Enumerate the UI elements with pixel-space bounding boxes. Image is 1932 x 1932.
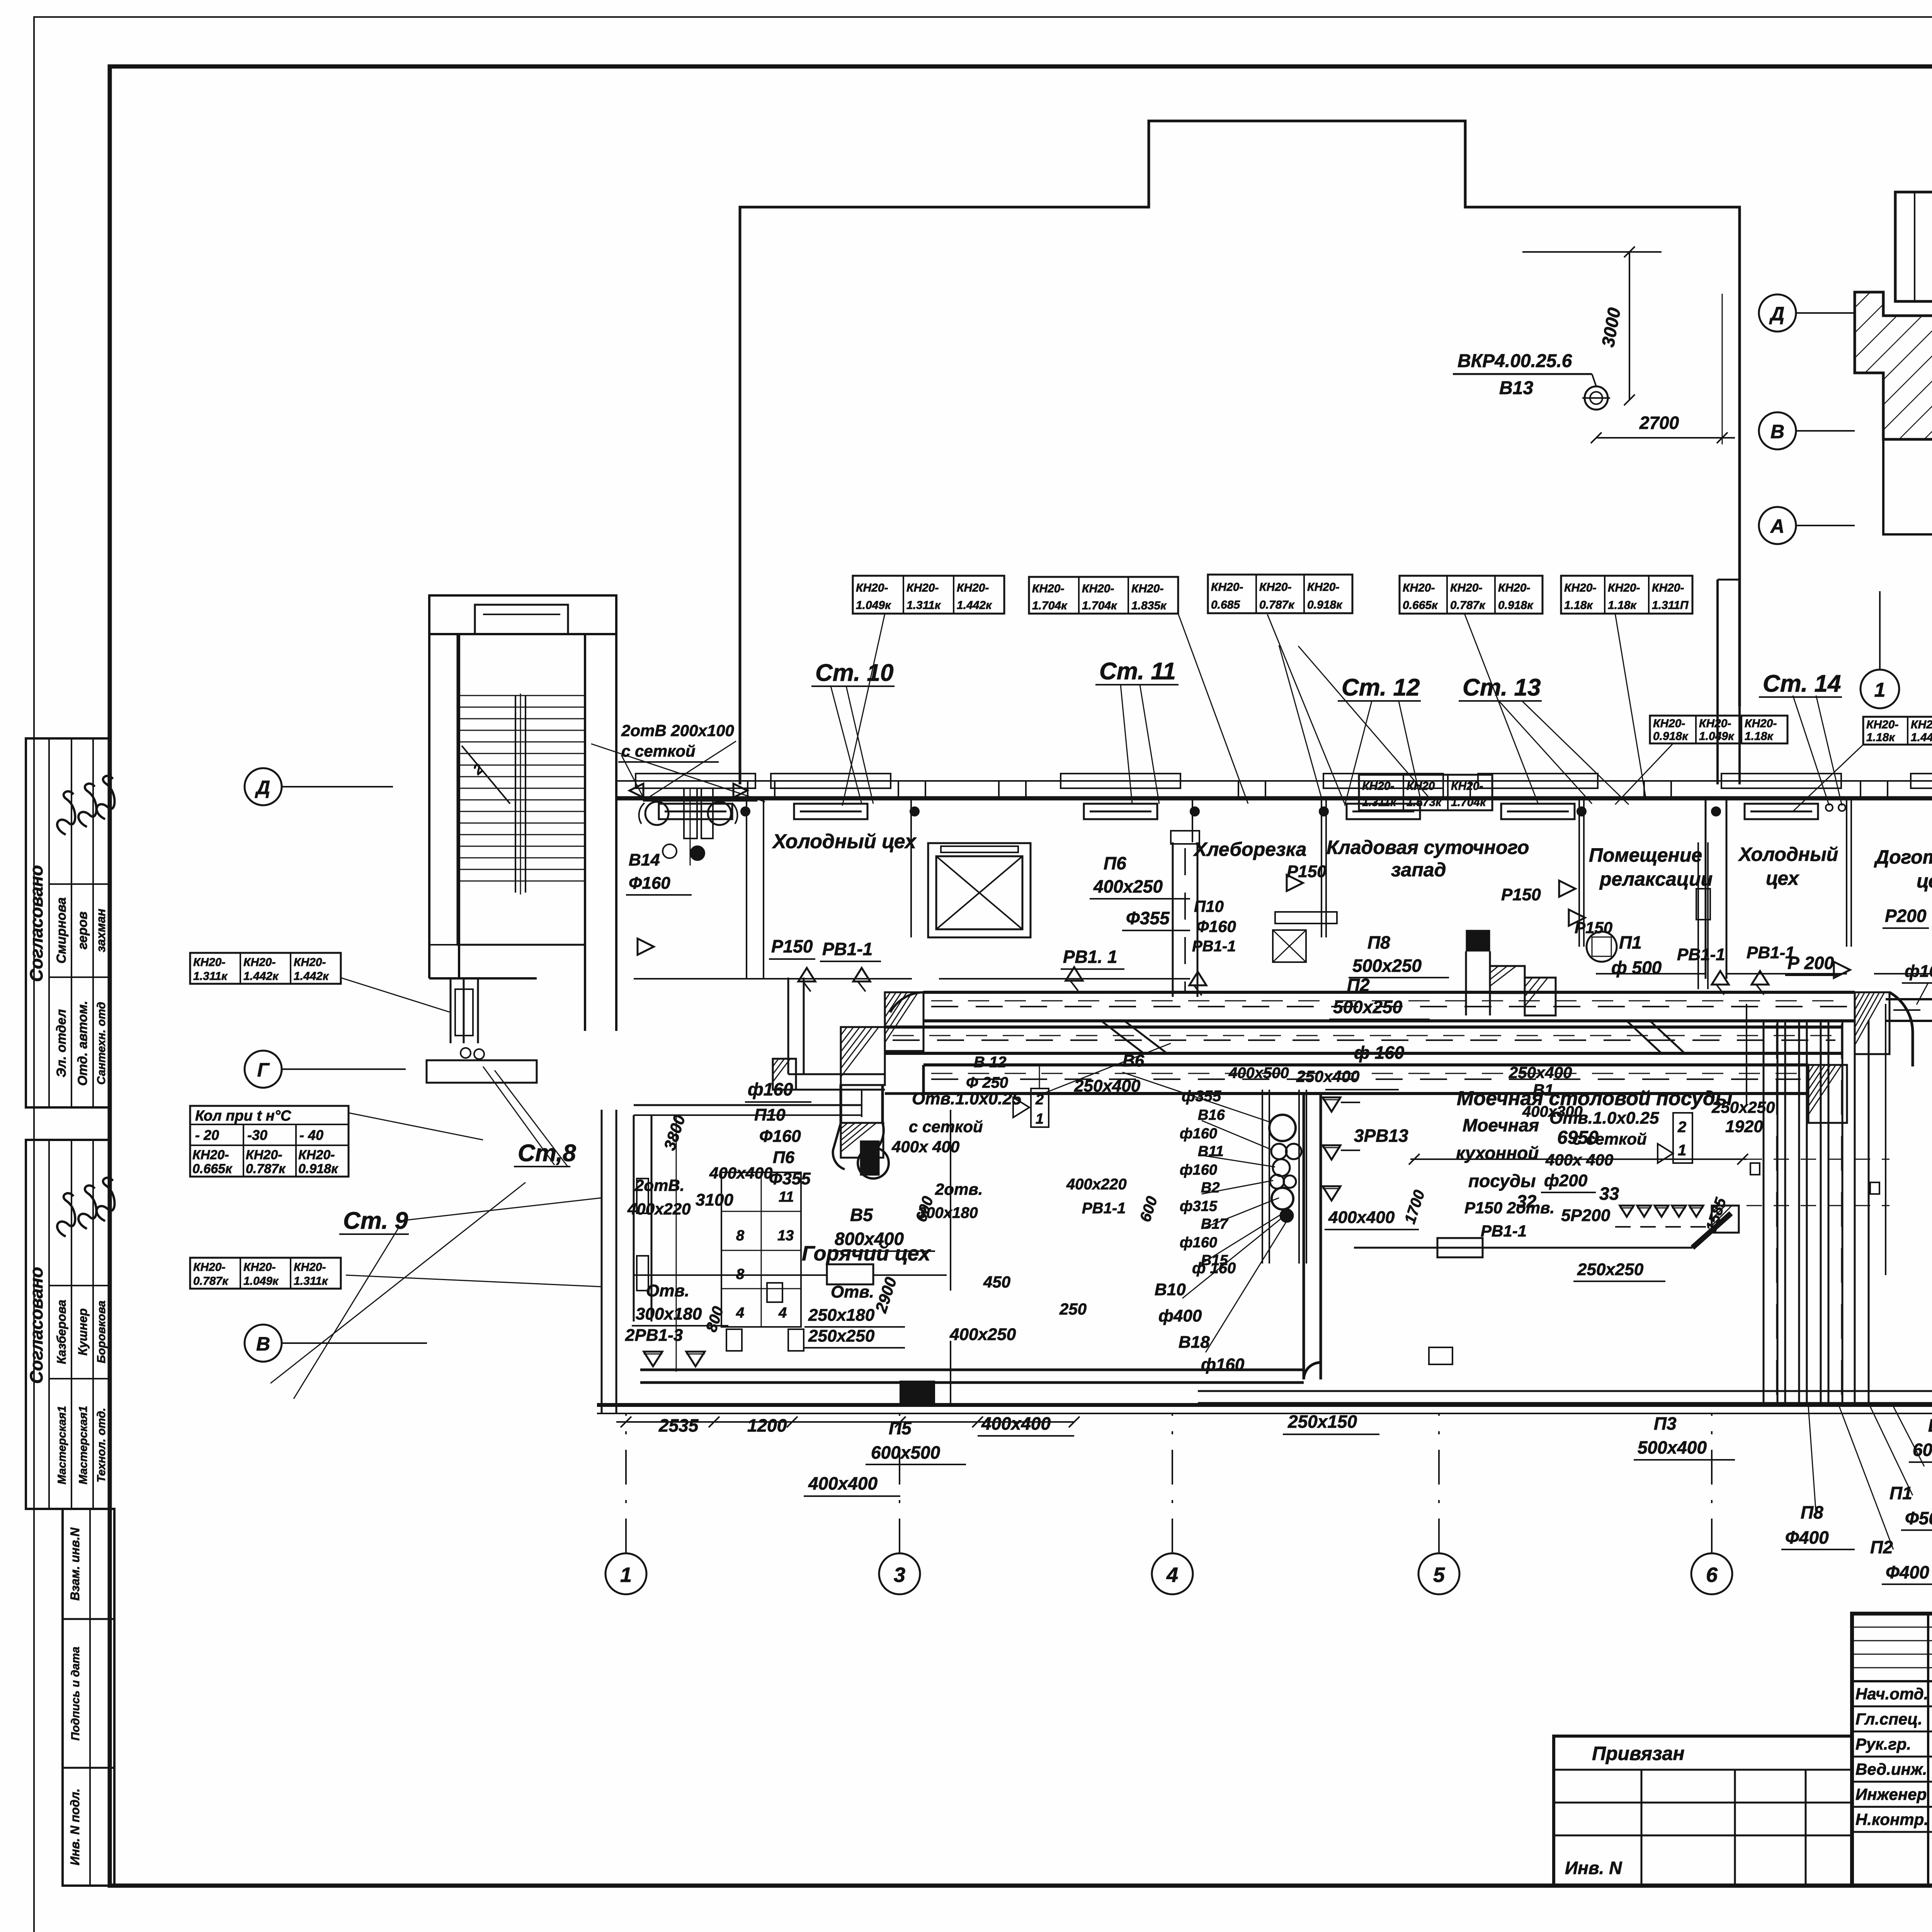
- lower band outer walls: [601, 1110, 603, 1413]
- svg-text:Согласовано: Согласовано: [26, 1267, 46, 1384]
- bundle left end fan cap: [863, 1123, 884, 1165]
- svg-text:КН20-: КН20-: [1498, 582, 1530, 594]
- svg-text:11: 11: [779, 1189, 794, 1205]
- svg-text:РВ1-1: РВ1-1: [1192, 938, 1236, 955]
- svg-text:2700: 2700: [1639, 413, 1679, 433]
- svg-text:КН20-: КН20-: [906, 582, 939, 594]
- P1 F500 circle: [1587, 932, 1617, 962]
- svg-text:П8: П8: [1367, 932, 1390, 952]
- svg-text:РВ1-1: РВ1-1: [1677, 945, 1725, 964]
- svg-text:3: 3: [894, 1563, 905, 1587]
- dim chain bottom-left: [616, 1421, 1074, 1423]
- svg-text:В3: В3: [1928, 1415, 1932, 1435]
- svg-text:1.835к: 1.835к: [1131, 599, 1167, 612]
- svg-text:Ф500: Ф500: [1905, 1508, 1932, 1528]
- svg-text:0.787к: 0.787к: [246, 1162, 286, 1176]
- sidebar inv block: [63, 1509, 114, 1886]
- svg-text:цех: цех: [1917, 870, 1932, 892]
- svg-text:В13: В13: [1499, 378, 1533, 398]
- svg-text:КН20-: КН20-: [1362, 780, 1394, 793]
- svg-text:П3: П3: [1654, 1413, 1677, 1434]
- svg-text:Кушнер: Кушнер: [76, 1308, 90, 1355]
- svg-text:с сеткой: с сеткой: [621, 742, 696, 760]
- svg-text:1.18к: 1.18к: [1608, 599, 1637, 612]
- svg-text:250х150: 250х150: [1287, 1412, 1357, 1432]
- svg-text:Ст,8: Ст,8: [518, 1140, 576, 1167]
- misc leaders lower left: [1122, 1072, 1271, 1122]
- svg-text:Р200: Р200: [1885, 906, 1927, 926]
- svg-text:КН20-: КН20-: [1652, 582, 1684, 594]
- svg-text:КН20-: КН20-: [1032, 582, 1064, 595]
- svg-text:КН20-: КН20-: [294, 1261, 326, 1274]
- svg-text:кухонной: кухонной: [1456, 1143, 1539, 1163]
- dim 2700: [1596, 437, 1735, 439]
- svg-text:КН20-: КН20-: [193, 1261, 225, 1274]
- R200 flags: [1834, 962, 1850, 978]
- svg-text:1.704к: 1.704к: [1032, 599, 1068, 612]
- svg-text:Г: Г: [257, 1059, 270, 1081]
- svg-text:ВКР4.00.25.6: ВКР4.00.25.6: [1458, 351, 1572, 371]
- svg-text:Технол. отд.: Технол. отд.: [95, 1408, 108, 1482]
- svg-text:1.18к: 1.18к: [1564, 599, 1593, 612]
- svg-text:Боровкова: Боровкова: [95, 1301, 108, 1363]
- svg-text:П6: П6: [1104, 853, 1126, 873]
- svg-text:Р150: Р150: [1501, 885, 1541, 904]
- svg-text:посуды: посуды: [1468, 1171, 1536, 1191]
- privyazan table: [1554, 1736, 1852, 1886]
- dim 3000: [1522, 251, 1662, 253]
- svg-text:В14: В14: [629, 850, 660, 869]
- svg-text:ф 160: ф 160: [1354, 1043, 1405, 1063]
- svg-text:КН20-: КН20-: [243, 1261, 276, 1274]
- svg-text:Ф400: Ф400: [1886, 1562, 1929, 1582]
- svg-text:В: В: [256, 1333, 270, 1355]
- svg-text:Ф355: Ф355: [1126, 908, 1170, 928]
- svg-text:Привязан: Привязан: [1592, 1743, 1685, 1764]
- svg-text:Отв.: Отв.: [646, 1281, 689, 1300]
- svg-text:Р150: Р150: [771, 936, 813, 956]
- axis circle G left: [245, 1051, 282, 1088]
- svg-text:32: 32: [1517, 1191, 1537, 1211]
- svg-text:600х500: 600х500: [871, 1442, 940, 1463]
- svg-text:В18: В18: [1179, 1333, 1210, 1352]
- svg-text:КН20-: КН20-: [1450, 582, 1482, 594]
- svg-text:0.665к: 0.665к: [1403, 599, 1438, 612]
- svg-text:В: В: [1770, 421, 1784, 442]
- svg-text:1: 1: [620, 1563, 632, 1587]
- elevator shaft 1: [928, 843, 1031, 937]
- svg-text:450: 450: [983, 1273, 1010, 1291]
- axis circle V right: [1759, 412, 1796, 449]
- sidebar approval block 1: [26, 738, 110, 1107]
- svg-text:П1: П1: [1619, 932, 1642, 952]
- svg-text:КН20-: КН20-: [1564, 582, 1596, 594]
- svg-text:Ст. 14: Ст. 14: [1763, 670, 1841, 697]
- svg-text:В5: В5: [850, 1205, 873, 1225]
- svg-text:Гл.спец.: Гл.спец.: [1855, 1710, 1922, 1728]
- svg-text:1.442к: 1.442к: [957, 599, 992, 612]
- svg-text:- 20: - 20: [195, 1127, 219, 1143]
- svg-text:1920: 1920: [1725, 1117, 1763, 1136]
- svg-text:1.442к: 1.442к: [294, 970, 329, 983]
- svg-text:400х400: 400х400: [981, 1413, 1051, 1434]
- svg-text:Подпись и дата: Подпись и дата: [69, 1646, 82, 1740]
- junction dots on band: [741, 807, 750, 816]
- svg-text:4: 4: [778, 1305, 787, 1321]
- axis circle A right: [1759, 507, 1796, 544]
- svg-text:2: 2: [1677, 1119, 1686, 1136]
- svg-text:- 40: - 40: [299, 1127, 323, 1143]
- svg-text:КН20-: КН20-: [193, 956, 225, 969]
- strip top wall with windows: [616, 780, 1932, 782]
- svg-text:1.311к: 1.311к: [193, 970, 228, 983]
- svg-text:В1: В1: [1533, 1081, 1554, 1099]
- svg-text:Д: Д: [1769, 303, 1784, 325]
- svg-text:КН20-: КН20-: [298, 1148, 335, 1162]
- svg-text:ф 500: ф 500: [1611, 957, 1662, 978]
- lower-left main duct 400x400: [640, 1369, 1304, 1371]
- svg-text:0.787к: 0.787к: [193, 1275, 229, 1287]
- svg-text:Взам. инв.N: Взам. инв.N: [68, 1527, 82, 1601]
- svg-text:500х250: 500х250: [1333, 997, 1402, 1017]
- svg-text:КН20-: КН20-: [1911, 718, 1932, 731]
- axis circle V left: [245, 1325, 282, 1362]
- top axis circles: [1861, 670, 1899, 708]
- svg-text:400х220: 400х220: [627, 1200, 691, 1218]
- leader lines: [340, 978, 451, 1012]
- svg-text:ф355: ф355: [1182, 1088, 1221, 1105]
- svg-text:400х250: 400х250: [949, 1325, 1016, 1344]
- svg-text:400х400: 400х400: [709, 1164, 773, 1182]
- svg-text:РВ1-1: РВ1-1: [1481, 1222, 1527, 1240]
- svg-text:Ф160: Ф160: [1196, 917, 1236, 935]
- svg-text:КН20-: КН20-: [246, 1148, 282, 1162]
- svg-text:1: 1: [1036, 1111, 1044, 1127]
- svg-text:Инженер: Инженер: [1855, 1785, 1927, 1803]
- vestibule fans top-left: [645, 802, 668, 825]
- svg-text:400х250: 400х250: [1093, 876, 1163, 896]
- svg-text:цех: цех: [1766, 867, 1800, 889]
- svg-text:КН20-: КН20-: [1082, 582, 1114, 595]
- svg-text:Кол при t н°С: Кол при t н°С: [195, 1108, 291, 1124]
- svg-text:1.049к: 1.049к: [1699, 730, 1735, 743]
- svg-text:300х180: 300х180: [918, 1204, 978, 1221]
- svg-text:ф160: ф160: [1180, 1162, 1217, 1178]
- svg-text:РВ1-1: РВ1-1: [1082, 1200, 1126, 1217]
- vertical riser ducts cluster: [1763, 1020, 1765, 1405]
- svg-text:4: 4: [736, 1305, 744, 1321]
- st. labels: [811, 660, 895, 686]
- svg-text:8: 8: [736, 1266, 745, 1282]
- upper rooms bottom wall: [634, 978, 912, 980]
- svg-text:КН20-: КН20-: [1259, 581, 1291, 594]
- svg-text:3РВ13: 3РВ13: [1354, 1126, 1408, 1146]
- svg-text:РВ1-1: РВ1-1: [822, 939, 872, 959]
- svg-text:с сеткой: с сеткой: [1573, 1130, 1647, 1148]
- svg-text:П2: П2: [1347, 975, 1370, 995]
- svg-text:1.049к: 1.049к: [243, 1275, 279, 1287]
- RV triangles upper band: [798, 968, 815, 981]
- svg-text:400х500: 400х500: [1228, 1065, 1289, 1082]
- svg-text:0.685: 0.685: [1211, 599, 1240, 611]
- svg-text:33: 33: [1599, 1184, 1619, 1204]
- svg-text:КН20-: КН20-: [1403, 582, 1435, 594]
- svg-text:ф160: ф160: [1180, 1235, 1217, 1251]
- svg-text:ф315: ф315: [1180, 1198, 1218, 1214]
- svg-text:5: 5: [1433, 1563, 1445, 1587]
- svg-text:В10: В10: [1155, 1280, 1186, 1299]
- svg-text:Ст. 13: Ст. 13: [1463, 674, 1541, 701]
- svg-text:250х250: 250х250: [1711, 1098, 1775, 1116]
- svg-text:КН20-: КН20-: [1745, 717, 1777, 730]
- svg-text:250х400: 250х400: [1074, 1077, 1141, 1095]
- sidebar approval block 2: [26, 1140, 110, 1509]
- kol pri table: [190, 1106, 349, 1177]
- svg-text:Р 200: Р 200: [1787, 953, 1834, 973]
- svg-text:8: 8: [736, 1228, 745, 1244]
- svg-text:КН20-: КН20-: [1211, 581, 1243, 594]
- svg-text:Р150: Р150: [1287, 862, 1327, 881]
- svg-text:0.918к: 0.918к: [1307, 599, 1343, 611]
- svg-text:Моечная столовой посуды: Моечная столовой посуды: [1457, 1087, 1732, 1110]
- svg-text:6: 6: [1706, 1563, 1718, 1587]
- KN tables top: [853, 576, 1004, 614]
- svg-text:250х180: 250х180: [808, 1306, 875, 1325]
- svg-text:Ф355: Ф355: [769, 1169, 811, 1188]
- svg-text:КН20-: КН20-: [1653, 717, 1685, 730]
- svg-text:250х250: 250х250: [808, 1327, 875, 1345]
- svg-text:2отВ 200х100: 2отВ 200х100: [621, 721, 734, 740]
- svg-text:ф160: ф160: [1201, 1355, 1245, 1374]
- svg-text:Доготовочный: Доготовочный: [1874, 846, 1932, 868]
- left staircase: [429, 595, 616, 634]
- svg-text:КН20-: КН20-: [957, 582, 989, 594]
- svg-text:геров: геров: [75, 912, 90, 949]
- radiator duct f200 moechnaya: [1354, 1247, 1506, 1249]
- svg-text:Мастерская1: Мастерская1: [77, 1406, 90, 1484]
- svg-text:400х400: 400х400: [808, 1473, 878, 1493]
- st8/st9 long leaders: [270, 1182, 526, 1383]
- svg-text:КН20-: КН20-: [1451, 780, 1483, 793]
- svg-text:Мастерская1: Мастерская1: [56, 1406, 68, 1484]
- svg-text:Ст. 11: Ст. 11: [1099, 658, 1176, 685]
- svg-text:Вед.инж.: Вед.инж.: [1855, 1760, 1927, 1778]
- svg-text:А: А: [1770, 515, 1784, 537]
- svg-text:1.704к: 1.704к: [1451, 796, 1486, 809]
- svg-text:1.049к: 1.049к: [856, 599, 891, 612]
- svg-text:Хлеборезка: Хлеборезка: [1193, 838, 1306, 860]
- svg-text:П8: П8: [1801, 1502, 1823, 1522]
- svg-text:Инв. N: Инв. N: [1565, 1858, 1622, 1878]
- svg-text:ф160: ф160: [748, 1079, 793, 1099]
- svg-text:Нач.отд.: Нач.отд.: [1855, 1685, 1928, 1703]
- svg-text:ф200: ф200: [1544, 1171, 1588, 1190]
- svg-text:1: 1: [1678, 1142, 1686, 1159]
- svg-text:1.311П: 1.311П: [1652, 599, 1689, 612]
- svg-text:Инв. N подл.: Инв. N подл.: [68, 1788, 82, 1865]
- svg-text:Согласовано: Согласовано: [26, 865, 46, 982]
- svg-text:КН20-: КН20-: [1699, 717, 1731, 730]
- svg-text:1.442к: 1.442к: [243, 970, 279, 983]
- svg-text:500х250: 500х250: [1352, 956, 1422, 976]
- left room radiator line: [634, 1274, 827, 1276]
- svg-text:400х300: 400х300: [1522, 1103, 1583, 1120]
- svg-text:П10: П10: [754, 1105, 786, 1124]
- title block main stamp: [1852, 1614, 1932, 1886]
- svg-text:0.787к: 0.787к: [1450, 599, 1486, 612]
- svg-text:300х180: 300х180: [636, 1304, 702, 1323]
- svg-text:КН20-: КН20-: [1866, 718, 1898, 731]
- svg-text:Ст. 12: Ст. 12: [1342, 674, 1420, 701]
- fan stack (moechnaya): [1262, 1090, 1263, 1264]
- lower-left grid table: [721, 1172, 801, 1327]
- svg-text:400х 400: 400х 400: [1545, 1151, 1613, 1169]
- svg-text:ф400: ф400: [1158, 1306, 1202, 1325]
- svg-text:КН20-: КН20-: [1608, 582, 1640, 594]
- small shaft kladovaya: [1273, 930, 1306, 962]
- svg-text:250: 250: [1059, 1300, 1087, 1318]
- upper building outline: [740, 121, 1740, 784]
- svg-text:В 12: В 12: [974, 1054, 1007, 1071]
- svg-text:1.311к: 1.311к: [294, 1275, 328, 1287]
- svg-text:Н.контр.: Н.контр.: [1855, 1810, 1929, 1828]
- svg-text:ф160: ф160: [1905, 962, 1932, 981]
- svg-text:Помещение: Помещение: [1589, 844, 1702, 866]
- P10 duct (khleborezka): [1172, 842, 1174, 997]
- svg-text:400х400: 400х400: [1328, 1208, 1395, 1227]
- svg-text:1.18к: 1.18к: [1745, 730, 1774, 743]
- svg-text:Смирнова: Смирнова: [54, 897, 69, 964]
- svg-text:ф 160: ф 160: [1192, 1260, 1236, 1277]
- svg-text:4: 4: [1166, 1563, 1178, 1587]
- rv triangles moechnaya: [1323, 1097, 1340, 1112]
- svg-text:0.665к: 0.665к: [192, 1162, 233, 1176]
- svg-text:Ф400: Ф400: [1785, 1527, 1829, 1548]
- svg-text:ф160: ф160: [1180, 1126, 1217, 1142]
- svg-text:3100: 3100: [696, 1190, 733, 1209]
- svg-text:400х220: 400х220: [1066, 1176, 1127, 1193]
- svg-text:КН20-: КН20-: [1307, 581, 1339, 594]
- svg-text:релаксации: релаксации: [1599, 868, 1713, 890]
- svg-text:Сантехн. отд: Сантехн. отд: [95, 1002, 108, 1085]
- bottom axis circles: [605, 1553, 646, 1594]
- svg-text:Ф160: Ф160: [759, 1127, 801, 1146]
- svg-text:250х400: 250х400: [1509, 1063, 1572, 1082]
- svg-text:Р150 2отв.: Р150 2отв.: [1464, 1199, 1554, 1217]
- svg-text:0.918к: 0.918к: [1653, 730, 1689, 743]
- svg-text:0.918к: 0.918к: [298, 1162, 338, 1176]
- svg-text:КН20-: КН20-: [243, 956, 276, 969]
- svg-text:250х400: 250х400: [1296, 1067, 1360, 1085]
- svg-text:1.18к: 1.18к: [1866, 731, 1895, 744]
- svg-text:0.787к: 0.787к: [1259, 599, 1295, 611]
- svg-text:КН20-: КН20-: [1131, 582, 1163, 595]
- 5R200 triangles: [1620, 1206, 1634, 1217]
- svg-text:Холодный цех: Холодный цех: [772, 830, 917, 853]
- svg-text:1.311к: 1.311к: [906, 599, 941, 612]
- right corridor duct 500x250: [1886, 998, 1932, 1000]
- axis circle D right: [1759, 294, 1796, 332]
- svg-text:Р150: Р150: [1575, 918, 1612, 937]
- svg-text:250х250: 250х250: [1577, 1260, 1644, 1279]
- P150 flags: [1287, 875, 1303, 891]
- upper kn leaders: [1279, 645, 1321, 798]
- svg-text:1.311к: 1.311к: [1362, 796, 1397, 809]
- duct f160 left: [788, 1073, 885, 1075]
- svg-text:Казберова: Казберова: [54, 1300, 68, 1364]
- svg-text:Кладовая суточного: Кладовая суточного: [1327, 837, 1529, 858]
- svg-text:В6: В6: [1122, 1051, 1145, 1070]
- svg-text:Отд. автом.: Отд. автом.: [75, 1001, 90, 1086]
- svg-text:800х400: 800х400: [835, 1229, 904, 1249]
- upper band partitions: [746, 798, 747, 979]
- svg-text:2отВ.: 2отВ.: [634, 1176, 684, 1194]
- svg-text:Ф 250: Ф 250: [966, 1074, 1008, 1091]
- svg-text:Отв.: Отв.: [831, 1282, 874, 1301]
- svg-text:Отв.1.0х0.25: Отв.1.0х0.25: [912, 1089, 1022, 1108]
- svg-text:Холодный: Холодный: [1738, 844, 1838, 865]
- left room duct column: [633, 1115, 635, 1321]
- svg-text:П6: П6: [773, 1148, 795, 1167]
- svg-text:запад: запад: [1391, 859, 1446, 881]
- svg-text:2РВ1-3: 2РВ1-3: [625, 1326, 683, 1345]
- svg-text:1200: 1200: [747, 1415, 787, 1435]
- svg-text:2отв.: 2отв.: [935, 1180, 983, 1198]
- svg-text:КН20-: КН20-: [192, 1148, 229, 1162]
- svg-text:1.442к: 1.442к: [1911, 731, 1932, 744]
- svg-text:400х 400: 400х 400: [891, 1138, 959, 1156]
- svg-text:500х400: 500х400: [1638, 1437, 1707, 1458]
- svg-text:КН20-: КН20-: [294, 956, 326, 969]
- svg-text:1.573к: 1.573к: [1406, 796, 1442, 809]
- svg-text:13: 13: [777, 1228, 794, 1244]
- left stair lower duct shaft: [450, 978, 452, 1043]
- svg-text:5Р200: 5Р200: [1561, 1206, 1611, 1225]
- svg-text:Ф160: Ф160: [629, 874, 670, 893]
- P8/P2 duct kladovaya: [1466, 930, 1490, 951]
- svg-text:с сеткой: с сеткой: [909, 1117, 983, 1136]
- svg-text:-30: -30: [247, 1127, 267, 1143]
- svg-text:1.704к: 1.704к: [1082, 599, 1117, 612]
- svg-text:Рук.гр.: Рук.гр.: [1855, 1735, 1911, 1753]
- KN tables sides: [190, 953, 341, 984]
- svg-text:1: 1: [1874, 679, 1886, 701]
- svg-text:Д: Д: [255, 777, 270, 798]
- svg-text:РВ1. 1: РВ1. 1: [1063, 947, 1117, 967]
- svg-text:2535: 2535: [658, 1415, 699, 1435]
- axis circle D left: [245, 768, 282, 805]
- svg-text:0.918к: 0.918к: [1498, 599, 1534, 612]
- svg-text:Эл. отдел: Эл. отдел: [54, 1009, 69, 1078]
- svg-text:П10: П10: [1194, 897, 1224, 915]
- main corridor duct bundle: [923, 991, 1855, 994]
- section flag 2/1 left: [1031, 1088, 1049, 1127]
- svg-text:КН20-: КН20-: [856, 582, 888, 594]
- svg-text:КН20: КН20: [1406, 780, 1435, 793]
- svg-text:Ст. 10: Ст. 10: [815, 660, 894, 686]
- svg-text:захман: захман: [94, 909, 108, 952]
- relax room riser: [1697, 842, 1699, 989]
